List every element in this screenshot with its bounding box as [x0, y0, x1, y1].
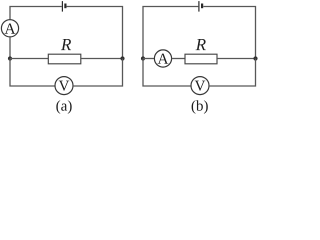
node N3 junction (b)	[141, 56, 145, 60]
wire: circuit (a) top-left, ammeter to battery	[10, 7, 62, 20]
label R (a)	[61, 39, 71, 50]
resistor R (a)	[48, 54, 81, 64]
node N2 junction (a)	[120, 56, 124, 60]
node N1 junction (a)	[8, 56, 12, 60]
label R (b)	[196, 39, 206, 50]
wire: circuit (a) node N1 to resistor	[10, 58, 48, 60]
voltmeter V2 (b)	[191, 77, 209, 95]
wire: circuit (b) voltmeter to node N4	[209, 59, 256, 87]
voltmeter V1 (a)	[55, 77, 73, 95]
wire: circuit (a) ammeter to node N1	[9, 37, 11, 59]
battery B1 (a)	[62, 1, 65, 12]
ammeter A1 (a)	[1, 20, 18, 37]
wire: circuit (a) node N1 down to voltmeter	[10, 59, 55, 87]
wire: circuit (b) battery to top-right corner down to node N4	[203, 7, 255, 59]
wire: circuit (b) resistor to node N4	[217, 58, 256, 60]
node N4 junction (b)	[253, 56, 257, 60]
wire: circuit (b) ammeter to resistor	[172, 58, 185, 60]
wire: circuit (b) top-left, node N3 to battery	[143, 7, 198, 59]
wire: circuit (b) node N3 down to voltmeter	[143, 59, 191, 87]
resistor R (b)	[185, 54, 217, 64]
caption (b)	[192, 100, 208, 114]
wire: circuit (a) battery to top-right corner down to node N2	[67, 7, 123, 57]
caption (a)	[56, 100, 71, 114]
wire: circuit (a) voltmeter to node N2	[73, 59, 123, 87]
battery B2 (b)	[199, 1, 202, 12]
ammeter A2 (b)	[154, 50, 171, 67]
wire: circuit (a) resistor to node N2	[81, 58, 123, 60]
wire: circuit (b) node N3 to ammeter	[143, 58, 155, 60]
